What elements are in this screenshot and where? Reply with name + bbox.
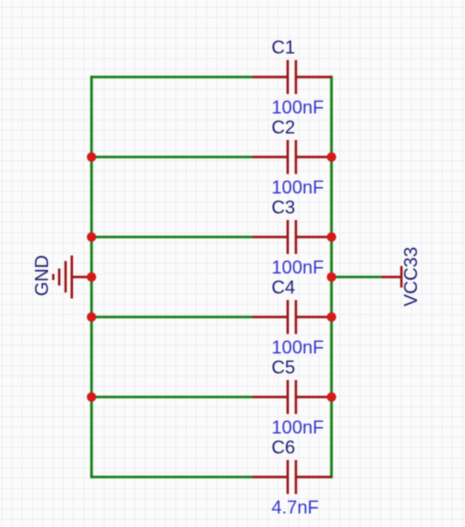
svg-text:100nF: 100nF bbox=[272, 176, 324, 197]
wire: C2 row net bbox=[92, 156, 253, 159]
wire: C3 row net bbox=[92, 236, 253, 239]
power symbol VCC33 bbox=[381, 266, 401, 288]
ground symbol GND bbox=[53, 256, 91, 299]
wire: left vertical rail bbox=[90, 76, 93, 478]
svg-text:C2: C2 bbox=[272, 117, 296, 138]
svg-text:C6: C6 bbox=[272, 437, 296, 458]
junction on right rail at C2 row bbox=[327, 152, 336, 161]
junction on left rail at C2 row bbox=[87, 152, 96, 161]
svg-text:C5: C5 bbox=[272, 357, 296, 378]
label C5 value 100nF bbox=[272, 416, 324, 437]
junction on right rail at VCC33 row bbox=[327, 272, 336, 281]
label C6 name bbox=[272, 437, 296, 458]
svg-text:100nF: 100nF bbox=[272, 96, 324, 117]
wire: C5 row net bbox=[92, 396, 253, 399]
wire: right vertical rail bbox=[330, 76, 333, 478]
capacitor C1 bbox=[253, 60, 332, 94]
capacitor C6 bbox=[253, 460, 332, 494]
svg-text:100nF: 100nF bbox=[272, 256, 324, 277]
svg-text:C4: C4 bbox=[272, 277, 296, 298]
svg-text:100nF: 100nF bbox=[272, 336, 324, 357]
label C3 value 100nF bbox=[272, 256, 324, 277]
label C4 name bbox=[272, 277, 296, 298]
svg-text:C1: C1 bbox=[272, 37, 296, 58]
label C5 name bbox=[272, 357, 296, 378]
label GND bbox=[31, 255, 52, 296]
junction on left rail at GND row bbox=[87, 272, 96, 281]
capacitor C2 bbox=[253, 140, 332, 174]
wire: C4 row net bbox=[92, 316, 253, 319]
wire: bottom net from left rail to C6 left pin bbox=[92, 476, 253, 479]
junction on left rail at C5 row bbox=[87, 392, 96, 401]
label C4 value 100nF bbox=[272, 336, 324, 357]
junction on left rail at C3 row bbox=[87, 232, 96, 241]
label VCC33 bbox=[400, 247, 421, 307]
capacitor C3 bbox=[253, 220, 332, 254]
svg-text:GND: GND bbox=[31, 255, 52, 296]
capacitor C4 bbox=[253, 300, 332, 334]
label C1 name bbox=[272, 37, 296, 58]
label C2 value 100nF bbox=[272, 176, 324, 197]
label C6 value 4.7nF bbox=[272, 496, 319, 517]
junction on right rail at C4 row bbox=[327, 312, 336, 321]
wire: top net from left rail to C1 left pin bbox=[92, 76, 253, 79]
junction on left rail at C4 row bbox=[87, 312, 96, 321]
capacitor C5 bbox=[253, 380, 332, 414]
svg-text:C3: C3 bbox=[272, 197, 296, 218]
label C2 name bbox=[272, 117, 296, 138]
svg-text:VCC33: VCC33 bbox=[400, 247, 421, 307]
label C3 name bbox=[272, 197, 296, 218]
junction on right rail at C3 row bbox=[327, 232, 336, 241]
svg-text:100nF: 100nF bbox=[272, 416, 324, 437]
junction on right rail at C5 row bbox=[327, 392, 336, 401]
svg-text:4.7nF: 4.7nF bbox=[272, 496, 319, 517]
wire: VCC33 stub net bbox=[332, 276, 382, 279]
label C1 value 100nF bbox=[272, 96, 324, 117]
